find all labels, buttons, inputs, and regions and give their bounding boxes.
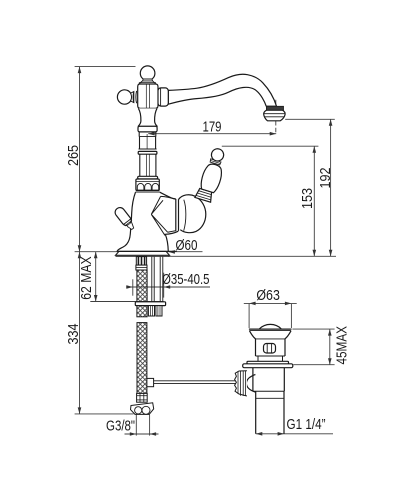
dimension line O63 <box>244 302 297 304</box>
ring B <box>138 176 158 179</box>
facet top edge <box>161 196 176 199</box>
arrow G3/8 right <box>150 432 157 436</box>
bell mouth line <box>117 250 177 252</box>
extension line from spout outlet bottom (192 top tick) <box>285 118 335 120</box>
cap band under ball <box>139 81 156 84</box>
arrow 45MAX top <box>328 329 332 336</box>
rod entry dome <box>246 375 255 393</box>
dimension line O35-40.5 <box>126 286 210 288</box>
hose stub B below plate <box>156 306 162 316</box>
column waist <box>140 154 156 176</box>
left knob ball <box>117 90 131 104</box>
collar bottom lines <box>136 189 159 191</box>
left knob neck <box>131 92 134 103</box>
top collar <box>210 159 221 165</box>
extension line from handle ball (153 top tick) <box>222 145 319 147</box>
tick at base bottom y=251.7 <box>75 251 203 253</box>
facet cone lines <box>151 196 167 235</box>
arrow 62MAX top <box>94 252 98 259</box>
porcelain lever body <box>199 162 224 193</box>
tube B <box>160 257 163 302</box>
dimension line 45MAX vertical <box>329 329 331 365</box>
arrow O60 leader <box>168 250 175 254</box>
dimension line 265/334 vertical <box>79 67 81 414</box>
svg-text:G1 1/4”: G1 1/4” <box>287 417 326 433</box>
svg-text:334: 334 <box>66 324 82 345</box>
knurled nut <box>235 371 247 396</box>
arrow O63 left <box>249 302 256 306</box>
handle lever group <box>195 146 229 203</box>
arches <box>137 183 144 190</box>
extension line right G3/8 <box>149 415 151 436</box>
extension tick top of 265 <box>75 66 136 68</box>
extension line left O63 <box>248 304 250 328</box>
top ball finial <box>140 66 155 81</box>
braid segment 3 (long) <box>137 323 147 394</box>
svg-text:179: 179 <box>203 119 222 135</box>
slot capsule <box>264 344 276 354</box>
rim <box>249 328 292 330</box>
tick bottom of 334 <box>75 413 134 415</box>
arrow O35 right (outside pointing left) <box>164 285 171 289</box>
flange <box>243 364 293 368</box>
arrow 265 bottom <box>78 245 82 252</box>
arrow G1-1/4 left <box>256 432 262 436</box>
ring band A <box>138 126 157 132</box>
facet bottom edge <box>168 231 176 233</box>
svg-text:265: 265 <box>66 145 82 166</box>
short section under band A <box>139 132 156 137</box>
flange lip <box>247 361 289 364</box>
arrow 153 bottom <box>313 250 317 256</box>
G3/8 angled nut <box>131 403 154 415</box>
braid segment 1 <box>137 270 147 302</box>
plug dome <box>259 324 281 329</box>
arrow O63 right <box>285 302 292 306</box>
arrow 45MAX bottom <box>328 358 332 365</box>
cone <box>250 331 292 339</box>
hose stub A below plate <box>148 306 154 316</box>
dimension line 153 vertical <box>313 146 315 256</box>
arch collar <box>136 179 159 190</box>
bell body left edge <box>117 192 136 251</box>
spout tube <box>168 74 276 106</box>
braid bottom ribbed collar <box>137 393 148 402</box>
trumpet neck below block <box>138 108 157 126</box>
extension line left G3/8 <box>135 415 137 436</box>
arrow 192 top <box>329 119 333 126</box>
tick bottom of 62MAX <box>90 301 163 303</box>
extension line left O35 <box>132 279 134 295</box>
braid top ribbed fitting <box>136 257 146 266</box>
long extension line from base to 153/192 bottoms <box>168 255 336 257</box>
tick bottom of 45MAX <box>293 364 334 366</box>
base plinth <box>116 251 170 255</box>
main top block <box>138 84 158 108</box>
dimension line 62MAX vertical <box>95 252 97 302</box>
spout outlet barrel <box>264 110 285 121</box>
ribbed collar <box>195 188 214 202</box>
arrow 265 top <box>78 67 82 74</box>
central band <box>175 199 177 231</box>
bell right edge <box>165 231 178 252</box>
tube A <box>152 257 154 302</box>
svg-text:G3/8": G3/8" <box>106 419 135 435</box>
neck right edge into body <box>160 192 176 199</box>
hemisphere inner left arc <box>184 200 186 231</box>
arrow 62MAX bottom <box>94 295 98 302</box>
arrow G1-1/4 right <box>278 432 285 436</box>
braid segment 2 <box>137 306 147 317</box>
dimension line 192 vertical <box>330 119 332 256</box>
svg-text:153: 153 <box>300 188 316 209</box>
nut circles <box>135 407 142 414</box>
rod lug on braid <box>147 378 154 386</box>
svg-text:Ø35-40.5: Ø35-40.5 <box>162 272 210 288</box>
body below flange <box>253 368 284 392</box>
arrow 179 right <box>270 132 277 136</box>
svg-text:Ø63: Ø63 <box>256 288 280 304</box>
svg-text:45MAX: 45MAX <box>335 326 351 365</box>
dimension line G3/8 <box>125 433 159 435</box>
left stub lever <box>113 206 136 232</box>
spout flange disc <box>158 88 168 106</box>
svg-text:62 MAX: 62 MAX <box>79 256 95 300</box>
arrow O35 left (outside pointing right) <box>126 285 133 289</box>
extension line right O63 <box>290 304 292 328</box>
pop-up rod horizontal <box>154 381 236 384</box>
tick top of 45MAX <box>292 328 334 330</box>
centerline of spout outlet (dashed) <box>275 100 277 106</box>
extension line right O35 <box>163 273 165 298</box>
svg-text:192: 192 <box>318 168 334 189</box>
arrow 334 bottom <box>78 407 82 414</box>
dimension line 179 horizontal <box>148 133 276 135</box>
tailpipe <box>256 391 284 434</box>
groove rings <box>139 148 157 150</box>
arrow 192 bottom <box>329 250 333 256</box>
mounting plate <box>135 302 165 306</box>
arrow 334 top <box>78 252 82 259</box>
body hemisphere <box>179 195 206 233</box>
column upper <box>140 137 156 149</box>
neck to flange <box>258 356 283 361</box>
arrow 179 left <box>148 132 155 136</box>
body cylinder <box>256 339 286 356</box>
svg-text:Ø60: Ø60 <box>176 238 198 254</box>
handle ball <box>210 147 225 162</box>
ball neck <box>143 79 153 81</box>
arrow G3/8 left <box>130 432 137 436</box>
arrow 153 top <box>313 146 317 153</box>
dimension line G1 1/4 with leader <box>256 433 333 435</box>
